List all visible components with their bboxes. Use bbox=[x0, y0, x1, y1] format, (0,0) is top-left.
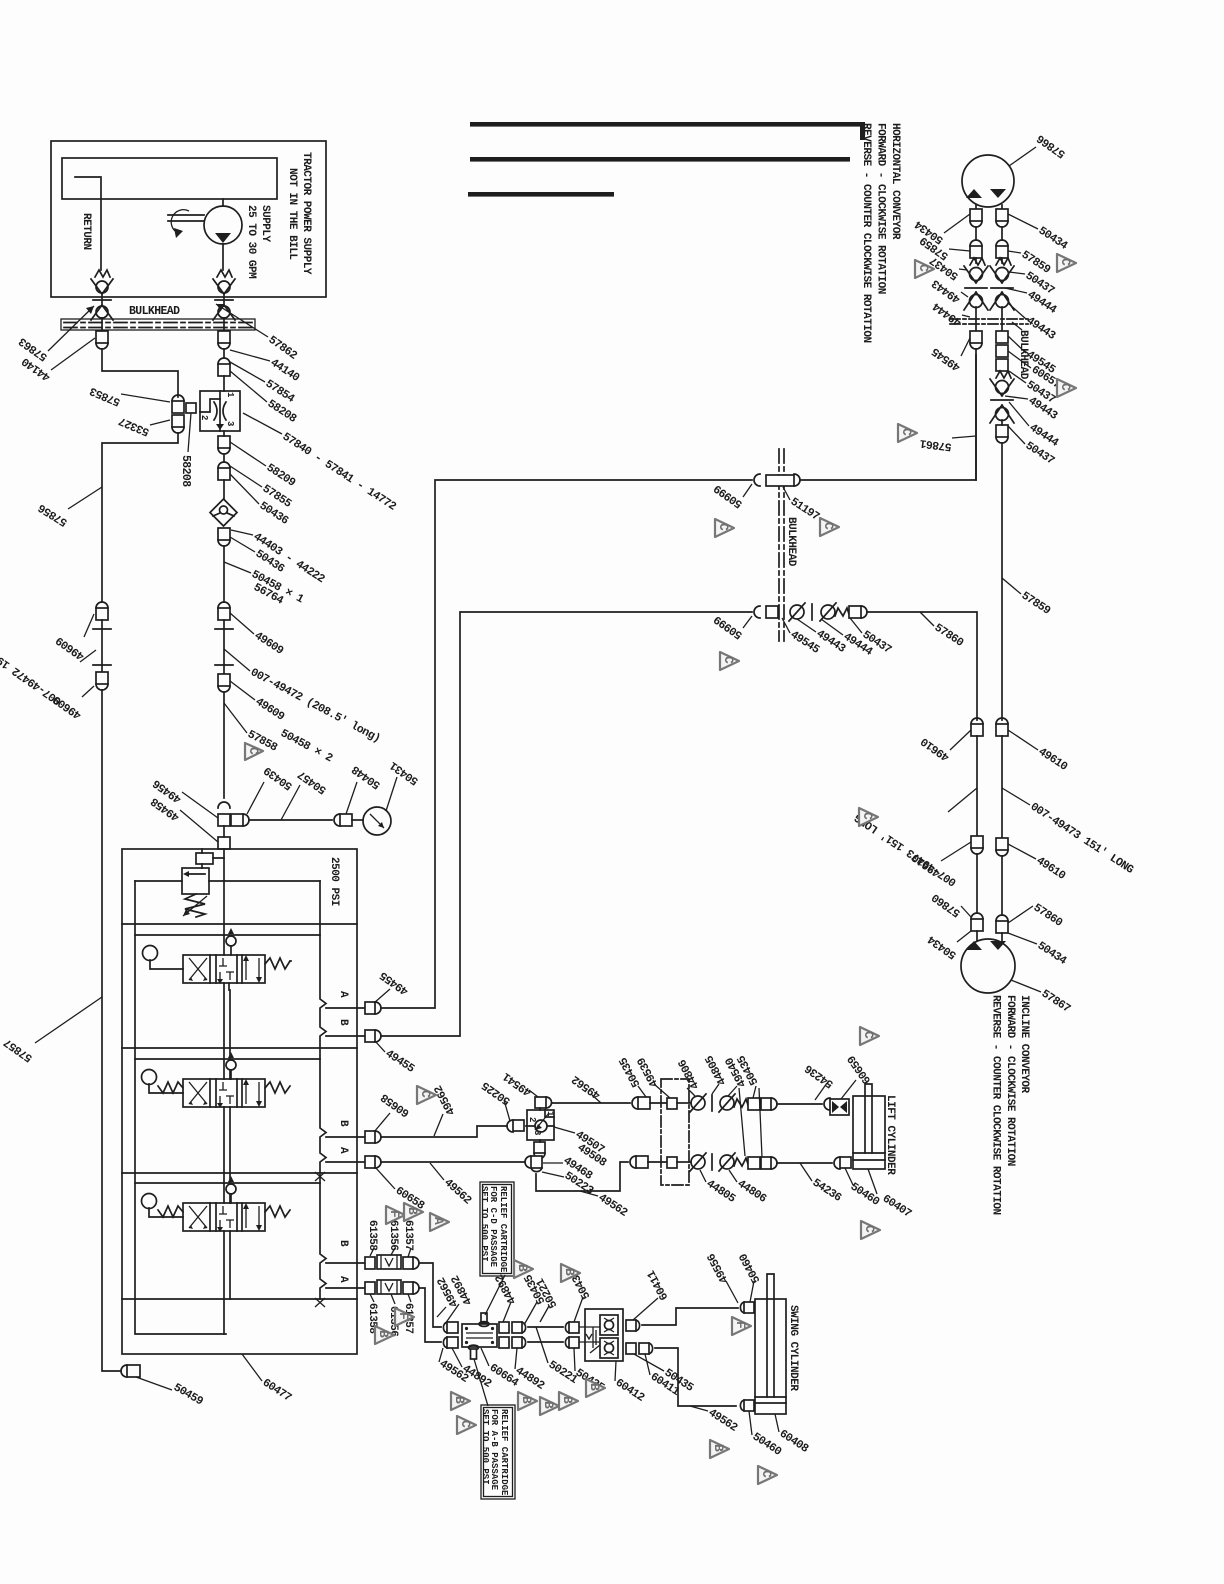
flag triangle B below bbox=[375, 1326, 394, 1344]
SV2 left spring bbox=[158, 1082, 183, 1093]
QD tick mid bbox=[811, 604, 813, 620]
supply tick 2 bbox=[215, 664, 233, 666]
left square at 246 bbox=[970, 246, 982, 258]
bulkhead union bottom square bbox=[766, 606, 778, 618]
blocked passage X at divider 4 bbox=[315, 1298, 325, 1307]
block divider 1 bbox=[122, 923, 357, 925]
svg-text:FORWARD - CLOCKWISE ROTATION: FORWARD - CLOCKWISE ROTATION bbox=[875, 123, 887, 294]
leader 61358 upper bbox=[370, 1248, 374, 1256]
gauge bell bbox=[334, 814, 340, 826]
leader 50459 bbox=[136, 1377, 172, 1390]
leader 49507 49508 bbox=[554, 1127, 575, 1133]
svg-text:1: 1 bbox=[545, 1111, 555, 1117]
label 44892 swing lower1 bbox=[452, 1348, 462, 1367]
svg-text:C: C bbox=[860, 812, 875, 820]
svg-text:C: C bbox=[1058, 383, 1073, 391]
bottom row bell right bbox=[771, 1157, 777, 1169]
left QD spring bbox=[970, 258, 985, 265]
flag triangle B mid1 bbox=[518, 1392, 537, 1410]
fitting square return below bulkhead bbox=[96, 331, 108, 343]
blocked passage X at divider 3 bbox=[315, 1172, 325, 1181]
swing valve right top squares bbox=[499, 1322, 509, 1333]
label 57859 right1 bbox=[1008, 251, 1021, 253]
hose square at 468 bbox=[218, 468, 230, 480]
inner pilot gallery top bbox=[135, 880, 320, 882]
svg-text:SET TO 500 PSI: SET TO 500 PSI bbox=[480, 1409, 490, 1485]
svg-text:C: C bbox=[721, 656, 736, 664]
lift bottom row start bell bbox=[630, 1156, 636, 1168]
rails mid run bbox=[977, 736, 1002, 838]
supply square lower bbox=[218, 674, 230, 686]
svg-text:INCLINE CONVEYOR: INCLINE CONVEYOR bbox=[1018, 995, 1030, 1094]
block divider 3 bbox=[122, 1172, 357, 1174]
flag triangle C mid left bbox=[715, 519, 734, 537]
leader 50431 bbox=[386, 777, 397, 811]
svg-text:C: C bbox=[246, 747, 261, 755]
leader 50434 right low bbox=[1008, 933, 1037, 944]
top QD spring bbox=[734, 1099, 748, 1107]
pump P1 circle bbox=[204, 206, 242, 244]
swing cyl bottom port bell bbox=[740, 1400, 744, 1411]
leader 49609 left upper bbox=[84, 614, 94, 637]
section1 load check bbox=[226, 936, 236, 946]
bottom hose bell at bulkhead bbox=[754, 606, 760, 618]
label 49443 right1 bbox=[1008, 303, 1026, 319]
lift bulkhead dashed box bbox=[661, 1079, 689, 1185]
FC2 bottom square bbox=[534, 1142, 545, 1153]
leader 49562 jog bbox=[580, 1191, 598, 1196]
SV3 parallel arrows bbox=[246, 1206, 259, 1228]
rails lower run bbox=[977, 854, 1002, 915]
jog hose to lift bottom row bbox=[536, 1162, 628, 1191]
label 50460 lift bbox=[845, 1168, 853, 1185]
flag triangle C left rail bbox=[859, 808, 878, 826]
left rail bell up at 915 bbox=[971, 913, 983, 919]
label 49444 left bbox=[962, 315, 970, 317]
cylinder bottom bell bbox=[834, 1157, 840, 1169]
svg-text:B: B bbox=[711, 1444, 726, 1452]
leader 50458 x 1 / 56764 bbox=[224, 562, 251, 573]
bottom row square at 667 bbox=[667, 1157, 677, 1168]
port A2 square bbox=[365, 1156, 375, 1168]
leader 60658 lower bbox=[375, 1167, 395, 1189]
hose stubs below motor bbox=[976, 227, 1002, 240]
right QD tick bbox=[991, 287, 1013, 289]
lift cylinder piston bbox=[853, 1153, 885, 1160]
leader 57860 mid bbox=[920, 612, 934, 626]
60412 outlet top bell bbox=[636, 1320, 640, 1331]
SV2 parallel arrows bbox=[246, 1082, 259, 1104]
flag triangle F swing bbox=[732, 1317, 751, 1335]
svg-text:B: B bbox=[562, 1268, 577, 1276]
wires to upper bulkhead bbox=[976, 307, 1002, 331]
bottom row line to bulkhead bbox=[648, 1161, 667, 1163]
svg-text:FORWARD - CLOCKWISE ROTATION: FORWARD - CLOCKWISE ROTATION bbox=[1004, 995, 1016, 1166]
section3 feed gallery line bbox=[135, 1182, 320, 1184]
tractor power supply outer box bbox=[51, 141, 326, 297]
leader 61356 lower bbox=[391, 1294, 395, 1304]
union fitting bell top at 178 bbox=[172, 395, 184, 401]
label 49562 swing upper bbox=[437, 1307, 446, 1317]
label 54236 top bbox=[815, 1083, 827, 1100]
leader 50999 bottom bbox=[743, 616, 752, 628]
hose B2 to lift flow control bbox=[381, 1126, 507, 1137]
svg-text:BULKHEAD: BULKHEAD bbox=[785, 517, 797, 567]
return end bell bbox=[121, 1365, 127, 1377]
leader 57860 left bbox=[961, 906, 971, 917]
return rail line mid bbox=[101, 620, 103, 672]
60412 internal passages bbox=[579, 1327, 600, 1353]
incline conveyor motor M2 bbox=[961, 939, 1015, 993]
leader 57853 bbox=[121, 394, 170, 402]
right square third bbox=[996, 359, 1008, 371]
supply quick-disconnect coupling spring bbox=[217, 270, 232, 277]
pump shaft lines bbox=[168, 215, 204, 221]
right QD2 tick bbox=[991, 399, 1013, 401]
flag triangle A above bbox=[430, 1213, 449, 1231]
section2 load check bbox=[226, 1060, 236, 1070]
svg-text:REVERSE - COUNTER CLOCKWISE RO: REVERSE - COUNTER CLOCKWISE ROTATION bbox=[860, 123, 872, 343]
section1 feed gallery line bbox=[135, 934, 320, 936]
label 49562 swing lower-left bbox=[439, 1348, 443, 1362]
tee bell up above gauge branch bbox=[218, 802, 230, 808]
leader 50457 bbox=[281, 785, 300, 820]
port A2 line bbox=[326, 1161, 365, 1163]
supply bell up at 604 bbox=[218, 602, 230, 608]
svg-text:F: F bbox=[396, 1312, 411, 1320]
pump outlet triangle bbox=[215, 233, 231, 243]
flag triangle B swing1 bbox=[514, 1260, 533, 1278]
swing valve right bottom squares bbox=[499, 1337, 509, 1348]
label 60659 bbox=[841, 1080, 856, 1099]
M1 port stubs bbox=[976, 205, 1002, 209]
leader 51197 bbox=[783, 487, 790, 500]
right rail square at 921 bbox=[996, 921, 1008, 933]
leader 61357 upper bbox=[408, 1248, 411, 1257]
wire into filter bbox=[223, 480, 225, 499]
cylinder bottom square bbox=[840, 1157, 851, 1168]
right square 60657 bbox=[996, 345, 1008, 357]
M1 triangle up bbox=[966, 189, 982, 198]
svg-text:LIFT CYLINDER: LIFT CYLINDER bbox=[884, 1095, 896, 1175]
M1 left bell bbox=[970, 221, 982, 227]
port B2 line bbox=[326, 1136, 365, 1138]
block divider 2 bbox=[122, 1047, 357, 1049]
QD circle A mid bbox=[790, 605, 804, 619]
svg-text:SWING CYLINDER: SWING CYLINDER bbox=[787, 1305, 799, 1391]
leader 44140 left bbox=[51, 338, 95, 370]
svg-text:61358: 61358 bbox=[366, 1220, 378, 1251]
label 50434 right1 bbox=[1008, 214, 1038, 229]
supply drop from bulkhead bbox=[223, 349, 225, 358]
swing valve right bottom bell bbox=[522, 1337, 526, 1348]
svg-text:C: C bbox=[716, 523, 731, 531]
right QD circle A bbox=[996, 268, 1009, 281]
right square 49545 bbox=[996, 331, 1008, 343]
FC1 step line bbox=[200, 399, 220, 412]
right QD2 circle B bbox=[996, 408, 1009, 421]
relief valve RV1 body bbox=[182, 868, 209, 894]
leader 50437 mid bbox=[850, 618, 862, 633]
port A1 bell bbox=[375, 1002, 381, 1014]
svg-text:SUPPLY: SUPPLY bbox=[259, 205, 271, 243]
leader 61356 upper bbox=[391, 1248, 395, 1255]
SV1 parallel arrows bbox=[246, 958, 259, 980]
svg-text:F: F bbox=[733, 1321, 748, 1329]
pump outlet line bbox=[222, 244, 224, 270]
top QD circle A bbox=[691, 1096, 705, 1110]
svg-text:B: B bbox=[587, 1383, 602, 1391]
label 50221 swing upper bbox=[540, 1306, 549, 1322]
section3 gauge port line bbox=[149, 1208, 183, 1217]
label 50221 swing lower bbox=[536, 1327, 548, 1363]
QD circle B mid bbox=[821, 605, 835, 619]
flag triangle C swing cyl bbox=[758, 1466, 777, 1484]
leader 49455 lower bbox=[375, 1041, 385, 1052]
svg-text:3: 3 bbox=[532, 1130, 542, 1135]
relief screw top bbox=[481, 1313, 487, 1323]
label 44806 bottom bbox=[729, 1170, 737, 1182]
svg-text:HORIZONTAL CONVEYOR: HORIZONTAL CONVEYOR bbox=[889, 123, 901, 240]
label 54236 bottom bbox=[800, 1163, 812, 1181]
port A2 bell bbox=[375, 1156, 381, 1168]
label 50437 left1 bbox=[959, 269, 967, 270]
gauge stub bbox=[352, 819, 363, 821]
relief valve spring bbox=[185, 894, 205, 917]
svg-text:C: C bbox=[821, 522, 836, 530]
filter F1 diamond bbox=[210, 499, 237, 526]
M2 triangle up bbox=[966, 941, 982, 950]
leader 007-49472 208.5 bbox=[224, 649, 250, 671]
return rail hose break tick 2 bbox=[93, 664, 111, 666]
label 49556 bbox=[726, 1281, 738, 1303]
svg-text:REVERSE - COUNTER CLOCKWISE RO: REVERSE - COUNTER CLOCKWISE ROTATION bbox=[990, 995, 1002, 1215]
right rail square at 838 bbox=[996, 838, 1008, 850]
wire supply to bulkhead bbox=[223, 318, 225, 331]
filter outlet bell bbox=[218, 540, 230, 546]
relief valve RV1 pilot box bbox=[196, 853, 213, 864]
label 60411 upper bbox=[633, 1298, 658, 1320]
lift cylinder rod bbox=[865, 1084, 872, 1153]
lift cylinder body bbox=[853, 1096, 885, 1169]
svg-text:2: 2 bbox=[199, 415, 209, 420]
port B1 square bbox=[365, 1030, 375, 1042]
leader 57858 bbox=[224, 703, 247, 733]
bulkhead union top bell bbox=[794, 474, 800, 486]
hose to swing cylinder bottom bbox=[655, 1348, 736, 1406]
leader 49609 right lower bbox=[230, 681, 255, 700]
top row square pair B bbox=[761, 1098, 771, 1110]
leader 49610 right low bbox=[1008, 844, 1036, 859]
leader 57840-57841-14772 bbox=[243, 413, 282, 434]
check block inlet top square bbox=[569, 1322, 579, 1333]
swing valve left bottom square bbox=[447, 1337, 458, 1348]
return rail square lower bbox=[96, 672, 108, 684]
svg-text:C: C bbox=[862, 1225, 877, 1233]
check valve block 60412 bbox=[585, 1309, 623, 1361]
port B3 outer square bbox=[403, 1257, 413, 1269]
svg-text:B: B bbox=[519, 1396, 534, 1404]
leader 50999 top bbox=[743, 484, 752, 497]
svg-text:RELIEF CARTRIDGE: RELIEF CARTRIDGE bbox=[499, 1409, 509, 1496]
lift flow control FC2 box bbox=[527, 1110, 554, 1140]
svg-text:C: C bbox=[418, 1090, 433, 1098]
SV2 right spring bbox=[265, 1082, 290, 1093]
svg-text:C: C bbox=[899, 428, 914, 436]
FC2 top port bell bbox=[546, 1097, 552, 1108]
top row line to bulkhead bbox=[650, 1102, 667, 1104]
svg-text:61357: 61357 bbox=[402, 1220, 414, 1251]
orifice 60659 box bbox=[830, 1099, 849, 1115]
mid bell right bbox=[861, 606, 867, 618]
flag triangle B bottom-left pair bbox=[451, 1392, 470, 1410]
flag triangle C lift top bbox=[860, 1027, 879, 1045]
SV1 pilot stub bbox=[228, 983, 230, 990]
FC1 center divider with arrow bbox=[219, 391, 221, 431]
branch square right bbox=[231, 814, 243, 826]
flag triangle C below 50999 bbox=[720, 652, 739, 670]
leader 61357 lower bbox=[408, 1294, 411, 1302]
top hose to cylinder bbox=[777, 1103, 822, 1105]
filter outlet square bbox=[218, 528, 230, 540]
svg-text:C: C bbox=[861, 1031, 876, 1039]
svg-text:B: B bbox=[405, 1207, 420, 1215]
leader 007-49473 left bbox=[948, 788, 977, 812]
label 49545 left bbox=[961, 338, 970, 356]
leader 49562 hose A2 bbox=[430, 1163, 444, 1180]
return rail bell down bbox=[96, 684, 108, 690]
left rail square at 836 bbox=[971, 836, 983, 848]
leader 60477 bbox=[242, 1354, 262, 1381]
svg-text:A: A bbox=[431, 1217, 446, 1225]
svg-text:NOT IN THE BILL: NOT IN THE BILL bbox=[286, 168, 298, 260]
port A3 square bbox=[365, 1282, 375, 1294]
section2 feed gallery line bbox=[135, 1058, 320, 1060]
return pickup line bbox=[75, 177, 101, 270]
relief valve adjust arrow bbox=[183, 896, 207, 916]
leader 49610 left up bbox=[950, 730, 971, 750]
port A3 line bbox=[326, 1287, 365, 1289]
leader 61358 lower bbox=[370, 1294, 374, 1302]
flag triangle C lift bottom bbox=[861, 1221, 880, 1239]
label 50434 left1 bbox=[944, 214, 970, 233]
right rail bell down at 850 bbox=[996, 850, 1008, 856]
return QD lower half circle bbox=[93, 299, 111, 301]
bottom QD spring bbox=[734, 1158, 748, 1166]
right bell up at 240 bbox=[996, 240, 1008, 246]
top row bell right bbox=[771, 1098, 777, 1110]
label 60411 lower bbox=[645, 1354, 650, 1375]
svg-text:A: A bbox=[337, 1276, 349, 1283]
hose top to check block bbox=[528, 1326, 563, 1328]
leader 57854 bbox=[230, 362, 265, 382]
right QD circle B bbox=[996, 295, 1009, 308]
leader 44140 right bbox=[230, 350, 270, 361]
leader 50223 bbox=[542, 1172, 564, 1177]
leader arrow 57862 bbox=[216, 304, 268, 337]
60664 bolts bbox=[465, 1327, 468, 1330]
port B2 bell bbox=[375, 1131, 381, 1143]
port B2 square bbox=[365, 1131, 375, 1143]
swing valve left bottom bell bbox=[443, 1337, 447, 1348]
bell below 49468 bbox=[531, 1168, 542, 1172]
label 49444 right2 bbox=[1009, 402, 1029, 426]
supply bell down bbox=[218, 686, 230, 692]
wires right string bbox=[1001, 420, 1003, 720]
fitting square supply below bulkhead bbox=[218, 331, 230, 343]
block divider 4 bbox=[122, 1298, 357, 1300]
right QD2 spring bbox=[996, 371, 1011, 378]
flag triangle B swing2 bbox=[561, 1264, 580, 1282]
right rail bell up at 720 bbox=[996, 718, 1008, 724]
label 44892 swing upper1 bbox=[445, 1304, 459, 1324]
svg-text:C: C bbox=[458, 1420, 473, 1428]
flag triangle B mid4 bbox=[586, 1379, 605, 1397]
return hose to left rail bbox=[102, 433, 178, 602]
svg-text:25 TO 30 GPM: 25 TO 30 GPM bbox=[245, 205, 257, 279]
svg-text:RELIEF CARTRIDGE: RELIEF CARTRIDGE bbox=[498, 1186, 508, 1273]
inner left gallery bbox=[135, 881, 226, 1334]
leader 49609 right upper bbox=[230, 613, 254, 634]
port A3 outer square bbox=[403, 1282, 413, 1294]
flag triangle C bottom-left pair bbox=[457, 1416, 476, 1434]
leader 49541 bbox=[529, 1090, 538, 1097]
FC2 notch bbox=[545, 1110, 554, 1117]
left QD circle B bbox=[970, 295, 983, 308]
left rail bell down at 848 bbox=[971, 848, 983, 854]
flag triangle F below bbox=[395, 1308, 414, 1326]
branch bell right bbox=[243, 814, 249, 826]
title bar 2 bbox=[470, 157, 850, 162]
wire into flow control bbox=[223, 376, 225, 391]
leader 57857 bbox=[35, 997, 102, 1043]
right square at 246 bbox=[996, 246, 1008, 258]
top row line mid bbox=[677, 1102, 691, 1104]
leader 007-49473 right bbox=[1002, 788, 1030, 805]
port B3 bell bbox=[413, 1257, 419, 1269]
60412 outlet bottom squares bbox=[626, 1343, 636, 1354]
cylinder top bell bbox=[824, 1098, 830, 1110]
inner right gallery with port notches bbox=[320, 881, 326, 1299]
wire tee to block bbox=[223, 826, 225, 837]
swing valve left top square bbox=[447, 1322, 458, 1333]
tank gallery 2-3 bbox=[224, 1107, 230, 1203]
leader 49562 top row bbox=[592, 1095, 601, 1103]
label 49444 right1 bbox=[1005, 288, 1027, 293]
FC2 ball bbox=[526, 1125, 554, 1127]
label 44806 top bbox=[687, 1088, 695, 1096]
label 50460 swing cyl bbox=[749, 1411, 752, 1435]
svg-text:3: 3 bbox=[225, 421, 235, 426]
lift flow control inlet square bbox=[513, 1120, 524, 1131]
spool valve SV3 body bbox=[183, 1203, 265, 1231]
mid square right bbox=[849, 606, 861, 618]
label 50435 top1 bbox=[638, 1086, 646, 1097]
spool valve SV1 body bbox=[183, 955, 265, 983]
lift flow control inlet bell bbox=[507, 1120, 513, 1132]
bottom row square pair A bbox=[748, 1157, 760, 1169]
flag triangle C near B2 bbox=[417, 1086, 436, 1104]
bulkhead bar bbox=[61, 319, 255, 330]
flag triangle F above bbox=[386, 1206, 405, 1224]
right square at 420 bbox=[996, 425, 1008, 437]
label 50437 right2 bbox=[1009, 371, 1026, 383]
60412 lower cartridge bbox=[600, 1338, 618, 1358]
FC2 top port square bbox=[535, 1097, 546, 1108]
svg-text:B: B bbox=[376, 1330, 391, 1338]
port B1 bell bbox=[375, 1030, 381, 1042]
M1 triangle down bbox=[990, 189, 1006, 198]
